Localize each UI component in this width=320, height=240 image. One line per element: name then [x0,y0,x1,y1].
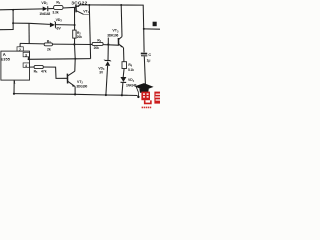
logo red character 1 [141,92,151,104]
transistor VT1 collector arm [76,11,83,15]
svg-text:4: 4 [25,64,27,68]
svg-text:3.3k: 3.3k [52,11,58,15]
resistor R2 box [73,30,76,38]
node C-R2 dot [74,24,76,26]
svg-text:3DG100: 3DG100 [76,85,87,89]
svg-text:R6: R6 [128,63,132,68]
wire bottom rail [14,94,138,96]
svg-text:VT1: VT1 [83,9,89,14]
transistor VT1 bar [75,5,77,12]
svg-text:VD1: VD1 [41,1,48,6]
wire VD3 to rail [106,66,108,95]
node rail VD4 dot [121,94,123,96]
resistor R3 box [44,43,52,46]
svg-text:E355: E355 [1,57,11,62]
node D-R2 dot [73,43,75,45]
diode VD1 bar [47,6,49,11]
logo tassel knob [137,96,139,98]
logo red character 2 partial [154,92,160,104]
wire row E [28,58,90,61]
pin2 tick [19,44,21,47]
wire VT2 emitter to rail [74,87,76,95]
transistor VT2 collector arm [68,71,75,76]
svg-text:1μ: 1μ [147,58,151,62]
watermark logo [135,83,160,107]
svg-text:R5: R5 [34,69,38,74]
node A1 dot [12,9,14,11]
svg-text:VD2: VD2 [56,18,63,23]
diode VD4 triangle [120,77,126,82]
IC pin2 box [17,47,23,51]
wire column x108 to VD3 [107,45,109,61]
transistor VT3 arrow [120,45,123,48]
labels [1,0,152,88]
transistor VT2 bar [66,74,68,84]
svg-text:3DK106: 3DK106 [107,33,118,37]
svg-text:R1: R1 [56,1,61,6]
node D-VD3 dot [107,43,109,45]
svg-text:3V: 3V [57,26,62,30]
wire column x90 VT1 collector [89,5,90,59]
node E-VT2 dot [74,58,76,60]
wire column x74 [74,7,77,71]
wire R5 row + drop to VT2 base [30,67,68,78]
svg-text:3: 3 [25,53,27,57]
zener VD2 triangle [50,23,55,28]
transistor VT3 bar [117,38,119,46]
svg-text:R3: R3 [47,40,51,45]
wire jog VT1 collector [84,13,90,16]
IC pin3 box [23,52,29,57]
capacitor C plate bottom [141,55,147,57]
zener VD2 hooks [54,21,56,28]
node rail corner T dot [143,28,145,30]
IC pin4 box [23,63,29,67]
transistor VT1 emitter arm [76,5,80,7]
zener VD3 hooks [104,60,111,62]
node rail pin1 dot [13,93,15,95]
node rail VT2 dot [74,93,76,95]
zener VD3 bar [105,59,111,61]
wire column x29 [28,23,30,43]
resistor R1 box [54,5,63,9]
svg-text:R4: R4 [97,38,101,43]
wire VD4 to rail [122,83,123,96]
wire row C [13,23,75,25]
svg-text:3CG22: 3CG22 [71,0,87,5]
diode VD1 triangle [43,7,48,12]
node C1 dot [12,22,14,24]
cropped component blob right edge [153,22,157,27]
svg-text:1N4148: 1N4148 [126,83,137,87]
resistor R5 box [34,65,43,68]
wire row A base line VT1 [0,7,76,10]
wire column VT3 collector [120,5,123,37]
diode VD4 bar [121,81,127,83]
wire column x108 stub above row D [107,38,109,45]
wire R6 to VD4 [122,68,125,77]
node B-VT3 dot [120,4,122,6]
resistor R6 box [122,62,127,69]
zener VD2 bar [54,22,56,28]
svg-text:2: 2 [19,48,21,52]
resistor R4 box [92,42,103,45]
node B-x90 dot [88,4,90,6]
wire VT3 emitter to R6 [123,48,125,62]
svg-text:20k: 20k [94,46,99,50]
transistor VT2 emitter arm [68,81,75,86]
transistor VT2 arrow [72,84,75,87]
wire left stub row y29.5 [0,29,14,31]
logo graduation cap top [135,83,154,90]
logo cap body [139,89,149,93]
transistor VT1 arrow [77,5,79,7]
svg-text:1N4148: 1N4148 [39,12,50,16]
wire column x13 [12,10,14,30]
svg-text:47k: 47k [41,69,47,73]
wire rail row B [80,5,146,90]
zener VD3 triangle [105,61,110,66]
transistor VT3 collector arm [119,37,122,40]
transistor VT3 emitter arm [119,44,124,47]
wire IC pin1 [13,80,15,94]
IC box A E355 [1,51,30,80]
logo red small text [142,106,152,108]
svg-text:20k: 20k [77,35,82,39]
svg-text:1: 1 [14,81,16,85]
svg-text:2k: 2k [47,47,51,51]
svg-text:C: C [148,53,151,57]
wire pin3 drop [27,57,29,60]
svg-text:VD4: VD4 [128,78,135,83]
capacitor C plate top [141,53,147,55]
node E-pin3 dot [28,58,30,60]
wire row D [20,43,118,45]
logo tassel [136,87,138,96]
wire stub to right edge [144,28,160,30]
node rail VD3 dot [105,94,107,96]
svg-text:5.1k: 5.1k [128,68,134,72]
